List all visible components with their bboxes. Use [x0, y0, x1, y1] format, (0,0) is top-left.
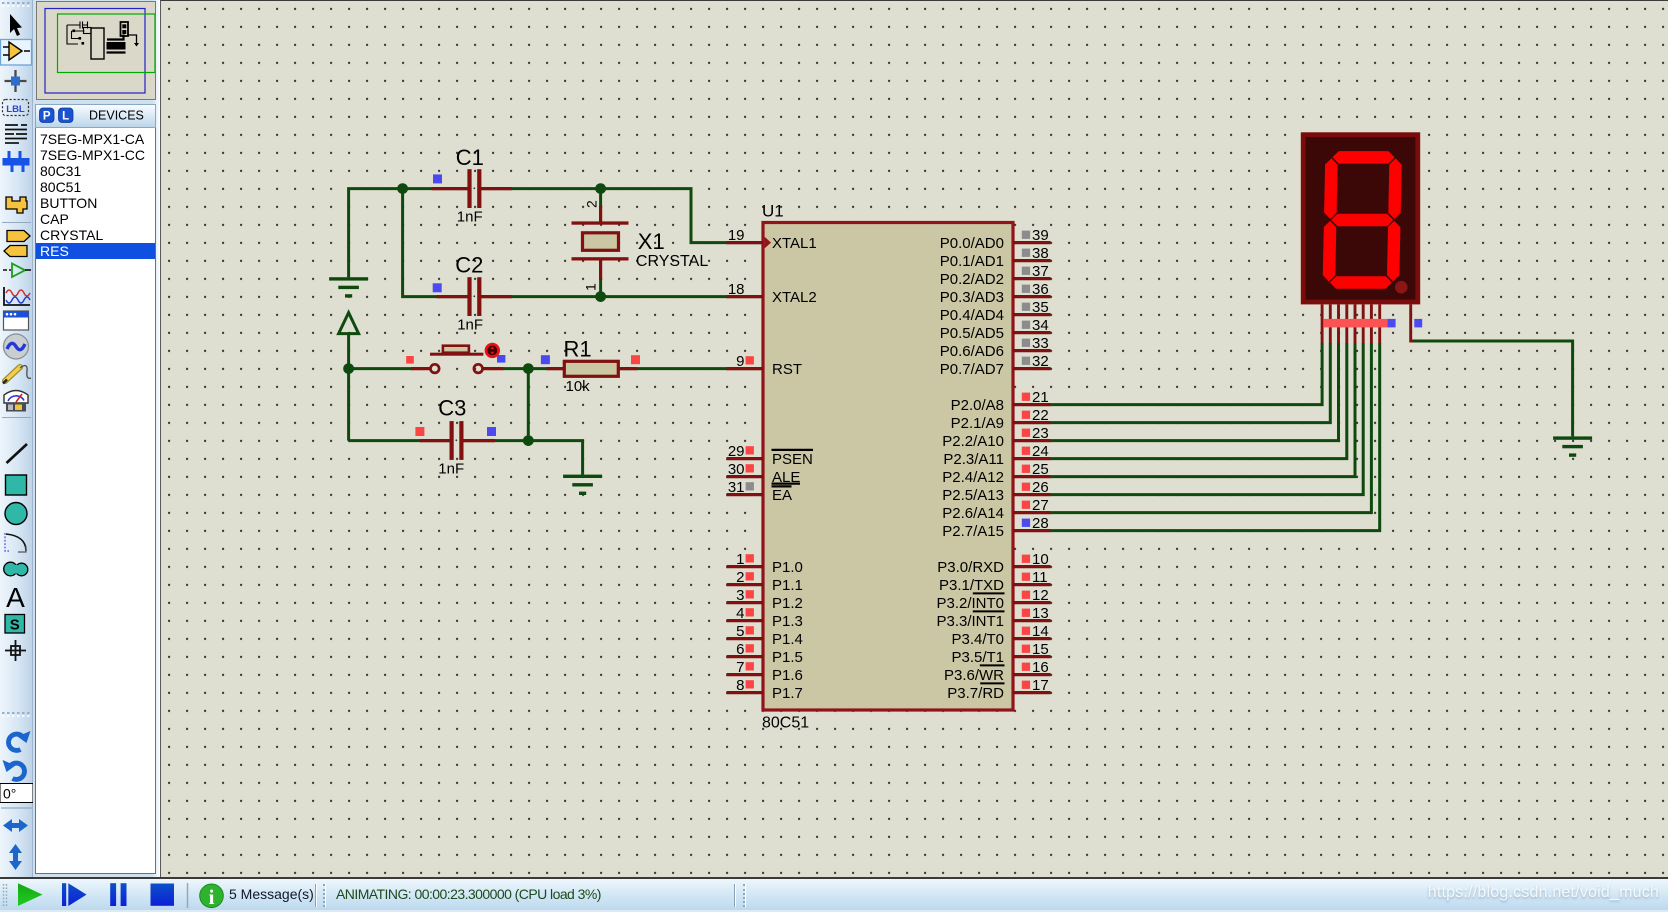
- tool: 2D box: [6, 475, 27, 495]
- svg-text:31: 31: [728, 479, 745, 496]
- svg-text:P3.5/T1: P3.5/T1: [951, 649, 1004, 666]
- resistor R1 left pin: [547, 367, 564, 370]
- devices header: [35, 104, 156, 128]
- wire: RST row (right of button): [501, 367, 763, 370]
- svg-text:36: 36: [1032, 281, 1049, 298]
- overline RD: [980, 682, 1004, 684]
- pin 11 P3.1/TXD (right): [1013, 583, 1051, 586]
- tool: virtual instrument: [4, 391, 28, 404]
- svg-text:U1: U1: [762, 202, 784, 221]
- segment B (top-right): [1388, 158, 1401, 219]
- wire P2.3 to display pin: [1051, 343, 1347, 459]
- pin 32 P0.7/AD7 (right): [1013, 367, 1051, 370]
- wire button node down to C3 node: [527, 369, 530, 441]
- power arrow terminal: [339, 313, 359, 334]
- tool: component mode (selected): [1, 40, 32, 66]
- wire P2.7 to display pin: [1051, 343, 1380, 531]
- mini schematic: [67, 22, 91, 45]
- svg-text:R1: R1: [564, 336, 592, 361]
- toolbar lower grip: [2, 712, 30, 714]
- svg-text:25: 25: [1032, 461, 1049, 478]
- pin 35 P0.4/AD4 (right): [1013, 313, 1051, 316]
- 7-segment display body: [1303, 135, 1418, 302]
- tool: 2D line: [7, 444, 28, 463]
- svg-text:29: 29: [728, 443, 745, 460]
- svg-text:X1: X1: [638, 229, 665, 254]
- capacitor C3 right pin: [463, 439, 495, 442]
- svg-text:A: A: [6, 582, 25, 613]
- world view overview window: [36, 1, 156, 100]
- svg-text:C3: C3: [438, 396, 466, 421]
- svg-text:XTAL2: XTAL2: [772, 289, 817, 306]
- svg-text:XTAL1: XTAL1: [772, 235, 817, 252]
- wire P2.2 to display pin: [1051, 343, 1339, 441]
- pin 8 P1.7 (left): [727, 691, 763, 694]
- svg-text:C1: C1: [456, 145, 484, 170]
- svg-text:10k: 10k: [566, 378, 591, 395]
- resistor R1: [564, 361, 618, 376]
- svg-text:11: 11: [1032, 569, 1048, 586]
- wire: RST row (left of button): [349, 367, 413, 370]
- pin 10 P3.0/RXD (right): [1013, 565, 1051, 568]
- svg-text:P: P: [43, 111, 51, 123]
- svg-text:34: 34: [1032, 317, 1049, 334]
- pin 3 P1.2 (left): [727, 601, 763, 604]
- svg-text:P3.7/RD: P3.7/RD: [947, 685, 1004, 702]
- wire P2.5 to display pin: [1051, 343, 1364, 495]
- svg-text:P0.7/AD7: P0.7/AD7: [940, 361, 1004, 378]
- wire P2.1 to display pin: [1051, 343, 1331, 423]
- crystal X1: [572, 221, 629, 224]
- svg-text:80C51: 80C51: [762, 715, 809, 732]
- segment E (bottom-left): [1323, 221, 1337, 282]
- svg-text:24: 24: [1032, 443, 1049, 460]
- pin 24 P2.3/A11 (right): [1013, 457, 1051, 460]
- svg-text:RST: RST: [772, 361, 802, 378]
- svg-text:P2.1/A9: P2.1/A9: [951, 415, 1004, 432]
- svg-text:1: 1: [583, 283, 599, 291]
- svg-text:33: 33: [1032, 335, 1049, 352]
- svg-text:P0.2/AD2: P0.2/AD2: [940, 271, 1004, 288]
- pin 15 P3.5/T1 (right): [1013, 655, 1051, 658]
- svg-text:P2.0/A8: P2.0/A8: [951, 397, 1004, 414]
- node A (C1/C2 branch): [397, 183, 408, 194]
- svg-text:17: 17: [1032, 677, 1049, 694]
- tool: selection cursor: [10, 14, 22, 36]
- svg-text:P3.4/T0: P3.4/T0: [951, 631, 1004, 648]
- svg-text:19: 19: [728, 227, 745, 244]
- svg-text:P0.6/AD6: P0.6/AD6: [940, 343, 1004, 360]
- svg-text:P1.7: P1.7: [772, 685, 803, 702]
- svg-text:P0.5/AD5: P0.5/AD5: [940, 325, 1004, 342]
- ground G3 (display common): [1553, 436, 1592, 456]
- crystal pin 1: [599, 259, 602, 280]
- button left pin: [411, 367, 430, 370]
- node B (XTAL1 net): [595, 183, 606, 194]
- svg-text:3: 3: [736, 587, 744, 604]
- tool: generator: [4, 334, 29, 359]
- svg-text:37: 37: [1032, 263, 1049, 280]
- button right pin: [483, 367, 503, 370]
- capacitor C1: [471, 186, 478, 191]
- display segment pins: [1321, 305, 1324, 344]
- capacitor C1 right pin: [481, 187, 512, 190]
- pause button: [110, 883, 116, 906]
- svg-text:P3.0/RXD: P3.0/RXD: [937, 559, 1004, 576]
- wire P2.6 to display pin: [1051, 343, 1372, 513]
- svg-text:9: 9: [736, 353, 744, 370]
- wire: C3 row to ground: [349, 441, 583, 475]
- svg-text:8: 8: [736, 677, 744, 694]
- pin 23 P2.2/A10 (right): [1013, 439, 1051, 442]
- C3 red state square: [415, 427, 424, 436]
- tool: 2D marker: [5, 640, 26, 661]
- display common state square (blue): [1414, 319, 1422, 328]
- segment F (top-left): [1324, 158, 1338, 219]
- toolbar grip: [2, 2, 30, 4]
- pin 1 P1.0 (left): [727, 565, 763, 568]
- node F (C3 node): [523, 435, 534, 446]
- svg-text:P2.5/A13: P2.5/A13: [942, 487, 1004, 504]
- svg-text:C2: C2: [455, 253, 483, 278]
- svg-text:P1.6: P1.6: [772, 667, 803, 684]
- pin 16 P3.6/WR (right): [1013, 673, 1051, 676]
- svg-text:DEVICES: DEVICES: [89, 109, 144, 123]
- pin 13 P3.3/INT1 (right): [1013, 619, 1051, 622]
- tool: bus: [3, 151, 29, 172]
- capacitor C2 right pin: [481, 295, 512, 298]
- svg-text:13: 13: [1032, 605, 1049, 622]
- display common pin: [1411, 305, 1414, 342]
- svg-text:LBL: LBL: [6, 104, 25, 115]
- tool: wire label LBL: [3, 100, 29, 116]
- left toolbar: [0, 0, 33, 877]
- pin 6 P1.5 (left): [727, 655, 763, 658]
- pin 5 P1.4 (left): [727, 637, 763, 640]
- tool: y-mirror: [13, 852, 18, 862]
- display pin state bar (red): [1324, 319, 1387, 328]
- svg-text:CRYSTAL: CRYSTAL: [636, 253, 708, 270]
- svg-text:4: 4: [736, 605, 744, 622]
- svg-text:P2.7/A15: P2.7/A15: [942, 523, 1004, 540]
- left panel column: [33, 0, 160, 877]
- svg-text:P2.6/A14: P2.6/A14: [942, 505, 1004, 522]
- C1 blue state square: [433, 174, 442, 183]
- tool: x-mirror: [11, 823, 21, 828]
- button (push switch): [431, 364, 440, 373]
- wire P2.4 to display pin: [1051, 343, 1355, 477]
- pin 18 XTAL2 (left): [727, 295, 763, 298]
- step button: [62, 883, 66, 906]
- capacitor C2 left pin: [437, 295, 468, 298]
- display dp state square (blue): [1387, 319, 1395, 328]
- pin 14 P3.4/T0 (right): [1013, 637, 1051, 640]
- svg-text:2: 2: [584, 200, 600, 208]
- svg-text:P3.1/TXD: P3.1/TXD: [939, 577, 1004, 594]
- tool: text script: [5, 125, 27, 143]
- svg-text:5: 5: [736, 623, 744, 640]
- wire power-arrow stem: [347, 334, 350, 369]
- pin 4 P1.3 (left): [727, 619, 763, 622]
- segment D (bottom): [1330, 276, 1392, 289]
- wire crystal pin2 stem: [599, 187, 602, 206]
- svg-text:P0.1/AD1: P0.1/AD1: [940, 253, 1004, 270]
- svg-text:12: 12: [1032, 587, 1049, 604]
- tool: junction dot: [5, 70, 27, 92]
- tool: voltage probe: [5, 367, 20, 381]
- pin 7 P1.6 (left): [727, 673, 763, 676]
- svg-text:1nF: 1nF: [438, 461, 464, 478]
- stop button: [151, 884, 175, 906]
- pin 22 P2.1/A9 (right): [1013, 421, 1051, 424]
- svg-text:10: 10: [1032, 551, 1049, 568]
- op-amp U1 body (80C51 microcontroller): [763, 223, 1013, 711]
- overline PSEN: [772, 449, 814, 451]
- resistor R1 right pin: [620, 367, 638, 370]
- svg-text:6: 6: [736, 641, 744, 658]
- svg-text:26: 26: [1032, 479, 1049, 496]
- svg-text:32: 32: [1032, 353, 1049, 370]
- XTAL1 clock marker: [765, 237, 771, 249]
- svg-text:EA: EA: [772, 487, 792, 504]
- svg-text:15: 15: [1032, 641, 1049, 658]
- svg-text:P3.6/WR: P3.6/WR: [944, 667, 1004, 684]
- svg-text:2: 2: [736, 569, 744, 586]
- overline INT0: [973, 592, 1005, 594]
- pin 21 P2.0/A8 (right): [1013, 403, 1051, 406]
- svg-text:L: L: [62, 111, 69, 123]
- svg-text:39: 39: [1032, 227, 1049, 244]
- tool: tape recorder: [4, 311, 29, 330]
- wire left rail RST->C3 row: [347, 369, 350, 441]
- svg-text:S: S: [10, 617, 20, 634]
- pin 31 EA (left): [727, 493, 763, 496]
- wire P2.0 to display pin: [1051, 343, 1323, 405]
- tool: 2D closed path: [4, 562, 28, 576]
- wire display common pin to ground: [1412, 341, 1573, 436]
- tool: terminal: [7, 231, 30, 242]
- pin 38 P0.1/AD1 (right): [1013, 259, 1051, 262]
- svg-text:P2.4/A12: P2.4/A12: [942, 469, 1004, 486]
- C3 blue state square: [487, 427, 496, 436]
- pin 30 ALE (left): [727, 475, 763, 478]
- svg-text:i: i: [209, 885, 215, 909]
- pin 28 P2.7/A15 (right): [1013, 529, 1051, 532]
- svg-text:27: 27: [1032, 497, 1049, 514]
- underline ALE / overline EA: [772, 483, 801, 485]
- pin 26 P2.5/A13 (right): [1013, 493, 1051, 496]
- pin 27 P2.6/A14 (right): [1013, 511, 1051, 514]
- pin 25 P2.4/A12 (right): [1013, 475, 1051, 478]
- tool: graph: [4, 287, 30, 305]
- node C (XTAL2 net): [595, 291, 606, 302]
- tool: rotate clockwise: [8, 734, 22, 750]
- segment G (middle): [1331, 214, 1393, 227]
- svg-text:PSEN: PSEN: [772, 451, 813, 468]
- info icon: [200, 884, 224, 908]
- svg-text:P0.4/AD4: P0.4/AD4: [940, 307, 1004, 324]
- status bar: [0, 877, 1668, 910]
- overline WR: [980, 664, 1005, 666]
- rotation angle box: [0, 784, 33, 803]
- svg-text:22: 22: [1032, 407, 1049, 424]
- svg-text:P1.3: P1.3: [772, 613, 803, 630]
- svg-text:14: 14: [1032, 623, 1049, 640]
- svg-text:P3.2/INT0: P3.2/INT0: [936, 595, 1004, 612]
- svg-text:30: 30: [728, 461, 745, 478]
- wire: left rail / C1 row to XTAL1: [349, 189, 763, 278]
- svg-text:7: 7: [736, 659, 744, 676]
- svg-text:P1.4: P1.4: [772, 631, 803, 648]
- wire: rail2 down to C2 row across to XTAL2: [403, 189, 763, 297]
- tool: 2D symbol: [5, 615, 25, 634]
- node E (button/R1): [523, 363, 534, 374]
- button red state square: [406, 356, 414, 364]
- svg-text:18: 18: [728, 281, 745, 298]
- tool: subcircuit: [6, 197, 27, 213]
- svg-text:0°: 0°: [3, 786, 16, 802]
- svg-text:P1.2: P1.2: [772, 595, 803, 612]
- svg-text:P1.5: P1.5: [772, 649, 803, 666]
- pin 33 P0.6/AD6 (right): [1013, 349, 1051, 352]
- segment C (bottom-right): [1387, 221, 1400, 282]
- svg-text:1: 1: [736, 551, 744, 568]
- svg-text:23: 23: [1032, 425, 1049, 442]
- svg-text:P2.2/A10: P2.2/A10: [942, 433, 1004, 450]
- R1 red state square: [631, 355, 640, 364]
- crystal pin 2: [599, 205, 602, 223]
- svg-text:P1.0: P1.0: [772, 559, 803, 576]
- capacitor C1 left pin: [432, 187, 468, 190]
- tool: 2D circle: [5, 503, 27, 525]
- capacitor C2: [471, 294, 478, 299]
- R1 blue state square: [541, 355, 550, 364]
- ground G2 (below C3): [563, 475, 602, 495]
- pin 19 XTAL1 (left): [727, 241, 763, 244]
- pin 12 P3.2/INT0 (right): [1013, 601, 1051, 604]
- svg-text:28: 28: [1032, 515, 1049, 532]
- button interactive toggle marker: [486, 344, 499, 357]
- svg-text:1nF: 1nF: [457, 317, 483, 334]
- C2 blue state square: [433, 283, 442, 292]
- ground G1 (left): [329, 277, 368, 297]
- capacitor C3: [453, 438, 460, 443]
- svg-text:21: 21: [1032, 389, 1049, 406]
- pin 2 P1.1 (left): [727, 583, 763, 586]
- decimal point: [1395, 281, 1408, 294]
- svg-text:1nF: 1nF: [457, 208, 483, 225]
- node D (reset rail): [343, 363, 354, 374]
- capacitor C3 left pin: [420, 439, 450, 442]
- pin 9 RST (left): [727, 367, 763, 370]
- svg-text:P3.3/INT1: P3.3/INT1: [936, 613, 1004, 630]
- svg-text:P0.3/AD3: P0.3/AD3: [940, 289, 1004, 306]
- tool: device pin: [3, 269, 11, 271]
- button blue state square: [497, 355, 505, 363]
- wire crystal pin1 stem: [599, 279, 602, 298]
- svg-text:P0.0/AD0: P0.0/AD0: [940, 235, 1004, 252]
- tool: 2D arc: [5, 533, 9, 551]
- svg-text:P1.1: P1.1: [772, 577, 803, 594]
- svg-text:38: 38: [1032, 245, 1049, 262]
- tool: rotate anticlockwise: [11, 763, 25, 779]
- pin 34 P0.5/AD5 (right): [1013, 331, 1051, 334]
- svg-text:16: 16: [1032, 659, 1049, 676]
- overline INT1: [973, 610, 1005, 612]
- pin 29 PSEN (left): [727, 457, 763, 460]
- segment A (top): [1333, 151, 1395, 164]
- pin 17 P3.7/RD (right): [1013, 691, 1051, 694]
- devices list: [35, 128, 156, 874]
- pin 36 P0.3/AD3 (right): [1013, 295, 1051, 298]
- pin 37 P0.2/AD2 (right): [1013, 277, 1051, 280]
- svg-text:P2.3/A11: P2.3/A11: [943, 451, 1004, 468]
- svg-text:35: 35: [1032, 299, 1049, 316]
- pin 39 P0.0/AD0 (right): [1013, 241, 1051, 244]
